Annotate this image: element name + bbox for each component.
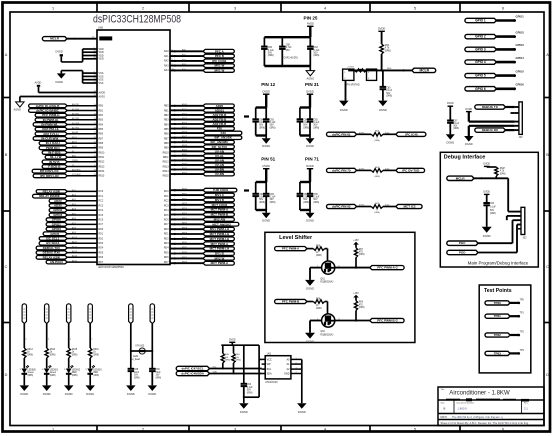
wire RC/RD pin — [170, 199, 203, 201]
svg-text:AD20: AD20 — [216, 104, 224, 108]
svg-text:(0R6): (0R6) — [316, 308, 322, 310]
svg-text:INF_M-T0U: INF_M-T0U — [212, 145, 228, 149]
svg-text:MV1 W: MV1 W — [215, 68, 225, 72]
net flag AD001 — [203, 109, 234, 113]
svg-text:Q61: Q61 — [320, 278, 325, 280]
svg-text:UV-AN: UV-AN — [215, 163, 224, 167]
svg-text:PJB CON1: PJB CON1 — [213, 188, 228, 192]
net flag dsPIC IO-B/HBC — [29, 109, 68, 113]
svg-text:49: 49 — [94, 170, 96, 172]
net flag PFC A — [203, 49, 234, 53]
svg-text:TP60: TP60 — [494, 301, 501, 305]
net flag PFC PWM-B G — [370, 318, 404, 322]
LED LED602 — [66, 369, 72, 374]
op-amp U60 main MCU dsPIC33CH128MP508 body — [97, 30, 170, 265]
svg-text:RP63: RP63 — [182, 252, 188, 254]
wire VDD bus vertical — [82, 49, 84, 62]
svg-text:PIN 51: PIN 51 — [261, 157, 275, 162]
wire RC/RD pin — [170, 262, 203, 264]
svg-text:PIN 12: PIN 12 — [261, 82, 275, 87]
wire RC/RD pin — [170, 248, 203, 250]
ground DGND — [42, 385, 52, 391]
svg-text:MV1 PWM-LH: MV1 PWM-LH — [210, 227, 229, 231]
net flag AD2 FB-B — [203, 122, 234, 126]
svg-text:fer_bead: fer_bead — [131, 359, 141, 361]
wire RB pin — [170, 164, 203, 166]
svg-text:dsPIC PIN 61: dsPIC PIN 61 — [332, 132, 351, 136]
wire to gnd rail — [295, 358, 302, 360]
svg-text:AD30: AD30 — [54, 204, 62, 208]
svg-text:PFC PWM-H: PFC PWM-H — [42, 113, 59, 117]
ground DGND — [265, 136, 267, 139]
wire stem — [265, 94, 267, 107]
svg-text:AD13: AD13 — [72, 250, 78, 253]
svg-text:RELAY ASW: RELAY ASW — [43, 189, 61, 193]
pin lead right — [291, 373, 295, 375]
resistor R65 — [371, 169, 383, 173]
svg-text:PIN 31: PIN 31 — [305, 82, 319, 87]
svg-text:(0R6): (0R6) — [314, 55, 320, 57]
ground DGND — [64, 385, 74, 391]
svg-text:RP56: RP56 — [182, 218, 188, 220]
svg-text:RA4: RA4 — [164, 69, 169, 72]
net flag PGD — [447, 250, 478, 254]
svg-text:RB8: RB8 — [99, 143, 104, 145]
net flag MV1 A — [203, 193, 234, 197]
net flag TP61 — [485, 314, 510, 318]
svg-text:RB5: RB5 — [99, 129, 104, 131]
svg-text:SDA: SDA — [213, 370, 218, 373]
svg-text:IPC CON1: IPC CON1 — [212, 59, 226, 63]
net flag LED2 (vertical) — [67, 304, 71, 324]
svg-text:AN14: AN14 — [182, 121, 188, 124]
svg-text:RB10: RB10 — [99, 152, 106, 154]
net flag AD2 FV1-H — [35, 132, 67, 136]
wire AVDD pin — [39, 92, 98, 94]
svg-text:R616: R616 — [93, 349, 99, 351]
wire — [307, 301, 313, 303]
svg-text:3: 3 — [234, 6, 236, 10]
net flag IN-PWM-HL — [35, 118, 67, 122]
svg-text:B: B — [5, 153, 8, 157]
svg-text:RP61: RP61 — [182, 242, 188, 244]
capacitor C69 — [151, 368, 153, 370]
svg-text:(0R6): (0R6) — [27, 354, 33, 356]
wire MCLR node horizontal — [348, 69, 412, 71]
svg-text:29: 29 — [94, 128, 96, 130]
svg-text:MCT PWM-LH: MCT PWM-LH — [210, 247, 229, 251]
net flag PFC PWM-A — [275, 247, 307, 251]
svg-text:(0R6): (0R6) — [303, 202, 309, 204]
wire top rail — [264, 36, 310, 38]
net flag RELAY ASW — [36, 256, 67, 260]
svg-text:C63: C63 — [386, 87, 391, 89]
wire top rail — [256, 106, 267, 108]
net flag DEBUG RXD — [475, 128, 506, 132]
svg-text:IN-CUR-WW: IN-CUR-WW — [41, 137, 58, 141]
net flag MCT PWM-LH — [203, 247, 234, 251]
wire — [383, 133, 396, 135]
svg-text:(0R6): (0R6) — [453, 128, 459, 130]
svg-text:PWM DC1: PWM DC1 — [46, 146, 60, 150]
net flag INT-DRV1-OC — [32, 169, 67, 173]
wire to U60 — [67, 200, 97, 202]
svg-text:Green: Green — [50, 372, 57, 374]
svg-text:AVDD: AVDD — [307, 21, 314, 25]
net flag MV2 W — [203, 257, 234, 261]
wire RB pin — [170, 109, 203, 111]
svg-text:B: B — [546, 153, 549, 157]
svg-text:RB12: RB12 — [99, 162, 106, 164]
wire RB pin — [170, 132, 203, 134]
svg-text:NL-LI W: NL-LI W — [50, 155, 61, 159]
pin lead right — [291, 363, 295, 365]
net flag MCLR — [412, 68, 436, 72]
net flag AD30 — [49, 204, 67, 208]
jumper box 2 — [367, 69, 377, 80]
svg-text:DEBUG RX: DEBUG RX — [482, 128, 499, 132]
svg-text:25V: 25V — [286, 50, 291, 52]
svg-text:RC3: RC3 — [99, 205, 104, 207]
svg-text:DVDD: DVDD — [483, 192, 490, 194]
ground DGND — [126, 385, 136, 391]
svg-text:(0R6): (0R6) — [500, 174, 506, 176]
svg-text:TP61: TP61 — [494, 314, 501, 318]
svg-text:2: 2 — [142, 6, 144, 10]
wire VSS pin — [83, 72, 97, 74]
resistor R63 — [371, 133, 383, 137]
svg-text:Debug Interface: Debug Interface — [444, 154, 486, 160]
net flag TP63 — [485, 351, 510, 355]
svg-text:dsPIC: dsPIC — [359, 169, 365, 171]
svg-text:RD2: RD2 — [164, 238, 169, 240]
net flag MV1 W — [203, 69, 234, 73]
net flag F20 — [203, 127, 234, 131]
svg-text:MCLR: MCLR — [50, 37, 60, 41]
svg-text:Airconditioner - 1.8KW: Airconditioner - 1.8KW — [449, 391, 510, 397]
svg-text:RB11: RB11 — [99, 157, 105, 159]
wire to U60 — [67, 166, 97, 168]
net flag INF_M-T0U — [203, 145, 234, 149]
ferrite bead L60 — [131, 350, 139, 352]
svg-text:RB14: RB14 — [99, 171, 106, 173]
wire RB pin — [170, 105, 203, 107]
svg-text:DGND: DGND — [379, 108, 387, 112]
svg-text:IN-F-B50: IN-F-B50 — [48, 151, 61, 155]
svg-text:AT24C512C: AT24C512C — [265, 381, 278, 384]
svg-text:RP62: RP62 — [182, 247, 188, 249]
svg-text:MV2 W: MV2 W — [215, 256, 225, 260]
svg-text:DGND: DGND — [483, 234, 491, 238]
svg-text:RP51: RP51 — [182, 194, 188, 196]
net flag DEBUG RX0 — [36, 251, 67, 255]
svg-text:I2C SCL1: I2C SCL1 — [46, 237, 59, 241]
svg-text:R6G: R6G — [235, 354, 240, 356]
svg-text:DVDD: DVDD — [465, 109, 472, 111]
svg-text:(0R6): (0R6) — [259, 127, 265, 129]
svg-text:F20: F20 — [217, 127, 222, 131]
svg-text:DGND: DGND — [20, 392, 28, 396]
svg-text:AVDD: AVDD — [35, 81, 42, 84]
svg-text:RP58: RP58 — [182, 228, 188, 230]
svg-text:1: 1 — [52, 428, 54, 432]
svg-text:RD5: RD5 — [99, 252, 104, 254]
svg-text:RB10: RB10 — [163, 152, 170, 154]
ground DGND — [20, 385, 30, 391]
svg-text:Level Shifter: Level Shifter — [279, 235, 313, 241]
svg-text:RB3: RB3 — [164, 120, 169, 122]
svg-text:VSS: VSS — [99, 82, 104, 85]
svg-text:MCT PWM-A: MCT PWM-A — [211, 242, 229, 246]
wire RB pin — [170, 128, 203, 130]
svg-text:PWM1: PWM1 — [72, 160, 79, 162]
svg-text:I2C SDA1: I2C SDA1 — [46, 241, 60, 245]
wire — [486, 165, 488, 168]
svg-text:DGND: DGND — [43, 392, 51, 396]
svg-text:AN-PB1: AN-PB1 — [72, 103, 80, 106]
wire to U60 — [67, 233, 97, 235]
svg-text:R6M: R6M — [500, 168, 505, 170]
net flag IN-PWM-WL — [33, 123, 67, 127]
pin lead — [518, 211, 521, 213]
ground DGND — [148, 385, 158, 391]
svg-text:RB11: RB11 — [163, 157, 169, 159]
svg-text:RP64: RP64 — [182, 257, 188, 259]
svg-text:RC4: RC4 — [164, 210, 169, 212]
wire to U60 — [67, 119, 97, 121]
svg-text:AN25: AN25 — [182, 172, 188, 175]
svg-text:RP52: RP52 — [182, 198, 188, 200]
svg-text:MCT PWM-B: MCT PWM-B — [211, 213, 229, 217]
svg-text:RQ6E030AJ: RQ6E030AJ — [320, 281, 333, 284]
svg-text:RC4: RC4 — [99, 210, 104, 212]
connector J62 — [521, 207, 525, 234]
net flag PWM DC1 — [39, 146, 67, 150]
wire stem — [309, 169, 311, 182]
wire to U60 — [67, 190, 97, 192]
wire RC/RD pin — [170, 238, 203, 240]
wire — [89, 374, 91, 386]
wire RC/RD pin — [170, 253, 203, 255]
wire RC/RD pin — [170, 204, 203, 206]
svg-text:RC1: RC1 — [164, 196, 169, 198]
net flag UV-AL — [203, 154, 234, 158]
svg-text:U61: U61 — [267, 354, 272, 356]
wire — [46, 358, 48, 368]
net flag GPIO 6 — [465, 87, 497, 91]
title block box — [438, 387, 544, 426]
svg-text:DGND: DGND — [127, 392, 135, 396]
svg-text:AD2 FB-B: AD2 FB-B — [212, 117, 227, 121]
net flag GPIO1 — [46, 223, 67, 227]
svg-text:RC2: RC2 — [164, 201, 169, 203]
net flag UV-BN — [203, 172, 234, 176]
svg-text:1.860 9: 1.860 9 — [458, 407, 468, 411]
wire — [506, 129, 515, 131]
svg-text:RD7: RD7 — [99, 262, 104, 264]
svg-text:50V: 50V — [386, 93, 391, 95]
svg-text:AN B: AN B — [72, 136, 77, 139]
wire RB pin — [170, 146, 203, 148]
wire VDD pin — [83, 58, 97, 60]
svg-text:DGND: DGND — [306, 219, 314, 223]
ground DGND — [305, 333, 315, 339]
svg-text:45: 45 — [94, 165, 96, 167]
resistor R612 1k — [23, 348, 26, 358]
svg-text:RC2: RC2 — [99, 201, 104, 203]
svg-text:RELAY INSIDE: RELAY INSIDE — [39, 194, 59, 198]
pin lead left — [262, 368, 266, 370]
wire gate — [325, 248, 328, 250]
svg-text:The 3017/14 3y d. d 3/hgww.: The 3017/14 3y d. d 3/hgww. d 4u 3ng-wm.… — [452, 416, 503, 419]
net flag IPC DRV1-OC — [33, 174, 67, 178]
svg-text:GPIO3: GPIO3 — [52, 227, 61, 231]
wire — [381, 54, 383, 70]
resistor R69 4.7k — [495, 167, 498, 176]
svg-text:RA2: RA2 — [164, 60, 169, 63]
svg-text:(0R6): (0R6) — [134, 377, 140, 379]
svg-text:(0R6): (0R6) — [359, 307, 365, 309]
net flag PFC B — [203, 54, 234, 58]
net flag MCT PWM-A — [203, 261, 234, 265]
net flag DEBUG TX0 — [36, 246, 67, 250]
wire to U60 — [67, 205, 97, 207]
wire — [510, 352, 519, 354]
svg-text:RELAY ASW: RELAY ASW — [43, 255, 61, 259]
svg-text:R6H: R6H — [225, 354, 230, 356]
wire drain — [335, 267, 370, 269]
wire DGND leg — [469, 125, 515, 127]
ground DGND — [265, 210, 267, 213]
svg-text:RA1: RA1 — [164, 55, 169, 58]
svg-text:VCC: VCC — [267, 358, 272, 361]
net flag MCT CON3 — [203, 203, 234, 207]
svg-text:AD PB0: AD PB0 — [72, 127, 80, 130]
svg-text:(0R6): (0R6) — [50, 375, 56, 377]
svg-text:50V: 50V — [490, 210, 495, 212]
svg-text:RP50: RP50 — [182, 189, 188, 191]
title block line — [438, 399, 544, 401]
wire — [496, 61, 514, 64]
svg-text:AN17: AN17 — [182, 135, 188, 138]
svg-text:MCLR: MCLR — [420, 68, 430, 72]
wire stem — [265, 169, 267, 182]
ground DGND — [239, 403, 249, 409]
net flag PFC PWM-B — [275, 299, 307, 303]
svg-text:3: 3 — [234, 428, 236, 432]
svg-text:GPIO2: GPIO2 — [516, 30, 525, 34]
net flag I2C SDA1 — [39, 241, 67, 245]
svg-text:25: 25 — [94, 118, 96, 120]
svg-text:RD3: RD3 — [164, 243, 169, 245]
frame tick — [369, 3, 371, 13]
net flag GPIO4 — [49, 213, 67, 217]
wire to U60 — [67, 161, 97, 163]
net flag F2 (vertical) — [150, 304, 154, 324]
wire — [357, 133, 372, 135]
svg-text:Main Program/Debug Interface: Main Program/Debug Interface — [468, 260, 529, 265]
svg-text:RD0: RD0 — [99, 229, 104, 231]
wire — [231, 342, 233, 345]
svg-text:RD2: RD2 — [99, 238, 104, 240]
wire RC/RD pin — [170, 214, 203, 216]
resistor R615 1k — [67, 348, 70, 358]
frame tick — [3, 210, 11, 212]
wire — [383, 206, 396, 208]
svg-text:GPIO6: GPIO6 — [52, 218, 61, 222]
svg-text:B: B — [444, 407, 446, 411]
svg-text:MCT CON3: MCT CON3 — [212, 203, 228, 207]
wire — [23, 358, 25, 368]
wire — [23, 324, 25, 348]
wire RC/RD pin — [170, 233, 203, 235]
wire MCLR to J62 pin1 — [474, 177, 508, 179]
net flag INF_AN008U — [203, 140, 234, 144]
wire — [506, 106, 515, 108]
title block divider — [453, 400, 455, 414]
svg-text:AN12: AN12 — [182, 112, 188, 115]
net flag LED1 (vertical) — [45, 304, 49, 324]
svg-text:R612: R612 — [27, 349, 33, 351]
svg-text:IPC DV-TXD: IPC DV-TXD — [402, 168, 420, 172]
svg-text:(0R6): (0R6) — [225, 360, 231, 362]
svg-text:AD PB4: AD PB4 — [72, 117, 80, 120]
node Test Points group box — [479, 285, 531, 373]
wire to U60 — [67, 133, 97, 135]
svg-text:PFC PWM-B: PFC PWM-B — [282, 300, 300, 304]
svg-text:IOM PB1-HL: IOM PB1-HL — [42, 127, 59, 131]
net flag GPIO3 — [46, 227, 67, 231]
svg-text:43: 43 — [94, 160, 96, 162]
svg-text:MV1 A: MV1 A — [215, 193, 225, 197]
svg-text:(0R6): (0R6) — [374, 140, 380, 142]
svg-text:(0R6): (0R6) — [303, 127, 309, 129]
svg-text:(0R6): (0R6) — [156, 377, 162, 379]
svg-text:DGND: DGND — [298, 410, 306, 414]
wire — [357, 206, 372, 208]
net flag GPIO 5 — [465, 73, 497, 77]
svg-text:DVDD: DVDD — [447, 103, 454, 105]
wire SCL — [210, 368, 262, 370]
svg-text:MCLR: MCLR — [456, 176, 466, 180]
resistor R67 470 — [354, 248, 357, 258]
net flag AN-PG03 — [46, 260, 67, 264]
svg-text:AN22: AN22 — [182, 158, 188, 161]
svg-text:PIN 71: PIN 71 — [305, 157, 319, 162]
svg-text:RP53: RP53 — [182, 203, 188, 205]
svg-text:35: 35 — [94, 142, 96, 144]
capacitor C63 — [382, 70, 384, 87]
svg-text:AN19: AN19 — [182, 144, 188, 147]
wire RC/RD pin — [170, 189, 203, 191]
net flag MCT PWM-B — [203, 213, 234, 217]
ferrite between boxes — [355, 69, 367, 72]
wire stem — [309, 94, 311, 107]
net flag MV1 PWM-LH — [203, 227, 234, 231]
svg-text:C66: C66 — [247, 384, 252, 386]
ground AGND — [309, 66, 311, 71]
resistor R611 10k — [222, 345, 224, 353]
wire C64 to J62 pin2 — [482, 215, 487, 217]
svg-text:(0R6): (0R6) — [316, 255, 322, 257]
ground DGND — [86, 385, 96, 391]
svg-text:RB9: RB9 — [164, 148, 169, 150]
svg-text:AN24: AN24 — [182, 167, 188, 170]
svg-text:RP60: RP60 — [182, 237, 188, 239]
net flag MCT AW/SK2 — [203, 222, 239, 226]
frame tick — [3, 322, 11, 324]
capacitor right — [309, 182, 311, 194]
